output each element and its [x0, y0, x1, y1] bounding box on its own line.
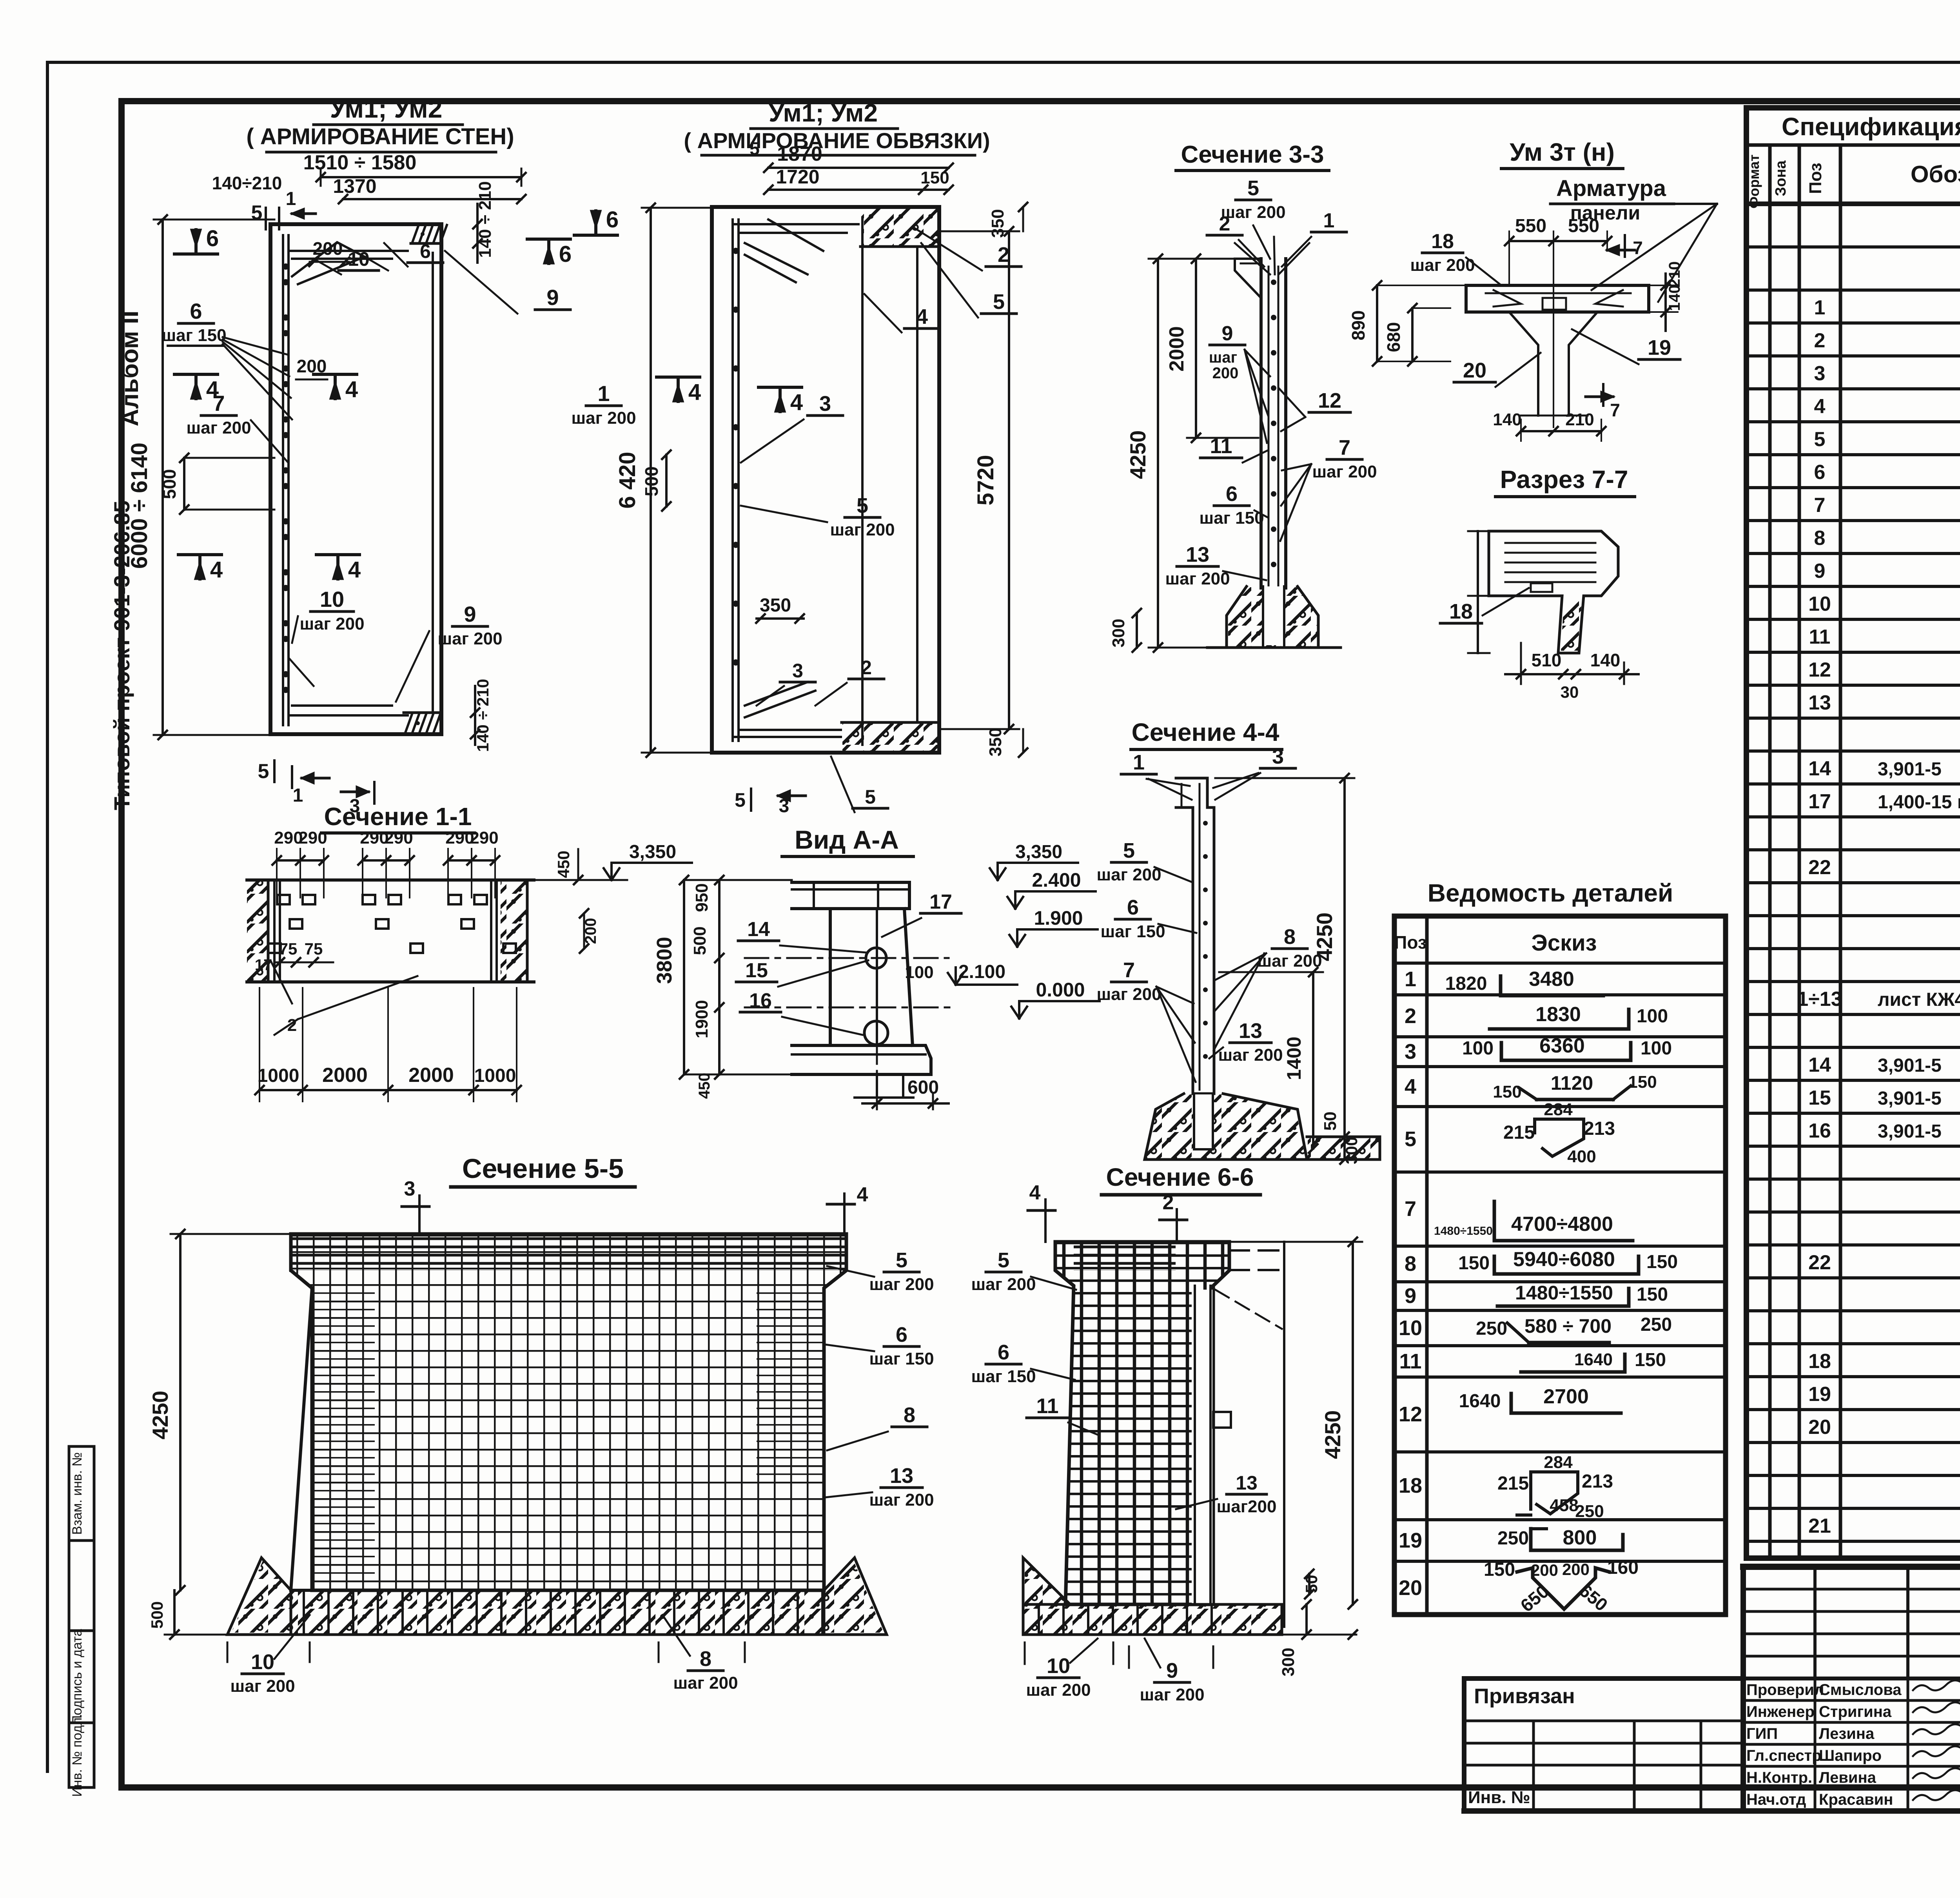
svg-text:5: 5 [998, 1248, 1009, 1272]
svg-text:5: 5 [735, 789, 746, 811]
svg-text:шаг 200: шаг 200 [1165, 569, 1230, 588]
svg-text:3: 3 [1814, 362, 1826, 385]
svg-text:Подпись и дата: Подпись и дата [70, 1629, 85, 1725]
svg-text:6: 6 [190, 299, 202, 323]
svg-text:3: 3 [792, 660, 803, 682]
svg-text:Зона: Зона [1773, 160, 1789, 196]
svg-text:250: 250 [1641, 1314, 1672, 1335]
svg-text:2: 2 [1814, 329, 1826, 352]
svg-text:1÷13: 1÷13 [1797, 988, 1842, 1011]
svg-text:шаг 200: шаг 200 [1140, 1685, 1204, 1704]
svg-text:1.900: 1.900 [1034, 907, 1083, 929]
svg-text:6000 ÷ 6140: 6000 ÷ 6140 [127, 443, 152, 569]
svg-text:8: 8 [700, 1647, 711, 1671]
svg-text:1400: 1400 [1283, 1036, 1305, 1080]
svg-text:Сечение 4-4: Сечение 4-4 [1132, 718, 1279, 746]
svg-text:150: 150 [920, 168, 949, 187]
svg-text:3,901-5: 3,901-5 [1878, 759, 1942, 780]
svg-text:Спецификация монолитных учас: Спецификация монолитных участков Ум1 ÷ У… [1782, 113, 1960, 141]
svg-text:1720: 1720 [776, 166, 819, 188]
svg-text:21: 21 [1808, 1515, 1831, 1537]
svg-text:3,350: 3,350 [629, 842, 676, 862]
svg-text:шаг 200: шаг 200 [869, 1490, 934, 1510]
svg-text:1870: 1870 [777, 143, 822, 165]
svg-text:2000: 2000 [408, 1064, 454, 1087]
svg-text:890: 890 [1348, 310, 1368, 341]
svg-text:5: 5 [1405, 1127, 1416, 1151]
svg-text:шаг 200: шаг 200 [971, 1275, 1036, 1294]
svg-text:Взам. инв. №: Взам. инв. № [70, 1452, 85, 1535]
svg-text:1: 1 [1133, 751, 1145, 774]
svg-text:Инв. № подл.: Инв. № подл. [70, 1714, 85, 1797]
svg-text:1830: 1830 [1535, 1003, 1581, 1026]
svg-text:6: 6 [420, 240, 431, 262]
svg-text:250: 250 [1575, 1502, 1604, 1521]
svg-text:( АРМИРОВАНИЕ СТЕН): ( АРМИРОВАНИЕ СТЕН) [246, 124, 514, 149]
svg-text:шаг 200: шаг 200 [1221, 203, 1285, 222]
svg-text:5: 5 [750, 138, 760, 159]
svg-text:5: 5 [1247, 176, 1259, 200]
svg-text:50: 50 [1321, 1112, 1340, 1131]
svg-text:284: 284 [1544, 1100, 1573, 1119]
svg-text:11: 11 [1399, 1350, 1421, 1373]
svg-text:17: 17 [929, 891, 952, 913]
svg-text:150: 150 [1635, 1350, 1666, 1370]
svg-text:1: 1 [293, 785, 303, 806]
svg-text:5: 5 [1814, 428, 1826, 451]
svg-text:2.400: 2.400 [1032, 869, 1081, 891]
svg-text:400: 400 [1567, 1147, 1596, 1166]
svg-text:1000: 1000 [258, 1065, 299, 1086]
svg-text:30: 30 [1561, 683, 1579, 701]
svg-text:1640: 1640 [1459, 1391, 1501, 1412]
svg-text:3,901-5: 3,901-5 [1878, 1121, 1942, 1142]
svg-text:шаг: шаг [1209, 349, 1237, 366]
svg-text:13: 13 [1239, 1019, 1262, 1043]
svg-text:10: 10 [1047, 1654, 1070, 1678]
svg-text:20: 20 [1463, 359, 1486, 382]
svg-text:200: 200 [1562, 1560, 1590, 1579]
svg-text:6: 6 [1226, 482, 1238, 506]
svg-text:16: 16 [1808, 1120, 1831, 1142]
svg-text:Поз: Поз [1394, 932, 1426, 953]
svg-text:5: 5 [896, 1248, 907, 1272]
svg-text:350: 350 [760, 595, 791, 616]
svg-text:19: 19 [1399, 1529, 1422, 1552]
svg-text:Вид А-А: Вид А-А [795, 825, 899, 854]
svg-text:8: 8 [904, 1403, 915, 1427]
svg-text:213: 213 [1582, 1471, 1613, 1492]
svg-text:500: 500 [159, 469, 180, 499]
svg-text:550: 550 [1515, 216, 1546, 236]
svg-text:2000: 2000 [322, 1064, 368, 1087]
svg-text:300: 300 [1109, 619, 1128, 647]
svg-text:100: 100 [1462, 1038, 1494, 1059]
svg-text:1: 1 [286, 189, 296, 209]
svg-text:13: 13 [890, 1464, 913, 1488]
svg-text:22: 22 [1808, 856, 1831, 879]
svg-text:300: 300 [1279, 1648, 1298, 1676]
svg-text:290: 290 [384, 828, 413, 847]
svg-text:6: 6 [606, 207, 619, 232]
svg-text:4250: 4250 [148, 1391, 172, 1440]
svg-text:250: 250 [1497, 1528, 1529, 1549]
svg-text:6360: 6360 [1539, 1034, 1585, 1057]
svg-text:1: 1 [1405, 967, 1416, 991]
svg-text:шаг 200: шаг 200 [869, 1275, 934, 1294]
svg-text:Н.Контр.: Н.Контр. [1746, 1769, 1812, 1786]
svg-text:9: 9 [1222, 322, 1233, 345]
svg-text:7: 7 [1633, 238, 1643, 258]
svg-text:450: 450 [554, 851, 573, 878]
svg-text:Гл.спестр: Гл.спестр [1746, 1747, 1822, 1764]
svg-text:15: 15 [745, 959, 768, 982]
svg-text:шаг 150: шаг 150 [1100, 922, 1165, 941]
svg-text:17: 17 [255, 956, 272, 974]
svg-text:Сечение 6-6: Сечение 6-6 [1106, 1163, 1254, 1191]
svg-text:1820: 1820 [1445, 973, 1487, 994]
svg-text:10: 10 [1399, 1316, 1422, 1340]
svg-text:4700÷4800: 4700÷4800 [1511, 1213, 1613, 1236]
svg-text:6: 6 [559, 241, 572, 267]
svg-text:Лезина: Лезина [1819, 1725, 1875, 1742]
svg-text:350: 350 [986, 728, 1005, 756]
svg-text:5: 5 [857, 494, 868, 517]
svg-text:15: 15 [1808, 1087, 1831, 1109]
svg-text:Сечение 3-3: Сечение 3-3 [1181, 141, 1324, 168]
svg-text:5720: 5720 [973, 455, 998, 505]
svg-text:Сечение 1-1: Сечение 1-1 [324, 802, 472, 831]
svg-text:50: 50 [1302, 1575, 1321, 1593]
svg-text:шаг 200: шаг 200 [1410, 256, 1475, 275]
svg-text:1900: 1900 [692, 1000, 711, 1038]
svg-text:шаг 200: шаг 200 [1312, 462, 1377, 481]
svg-text:2: 2 [861, 657, 872, 679]
svg-text:140 ÷ 210: 140 ÷ 210 [474, 679, 492, 752]
svg-text:1000: 1000 [474, 1065, 516, 1086]
svg-text:13: 13 [1186, 543, 1209, 566]
svg-text:Нач.отд: Нач.отд [1746, 1791, 1806, 1808]
svg-text:458: 458 [1550, 1496, 1578, 1515]
svg-text:140÷210: 140÷210 [212, 173, 282, 193]
svg-text:100: 100 [905, 963, 933, 982]
svg-text:75: 75 [305, 940, 323, 958]
svg-text:Разрез 7-7: Разрез 7-7 [1500, 465, 1628, 494]
svg-text:Поз: Поз [1806, 163, 1825, 194]
svg-text:Арматура: Арматура [1556, 176, 1666, 201]
svg-text:150: 150 [1484, 1559, 1515, 1580]
svg-text:3,901-5: 3,901-5 [1878, 1088, 1942, 1109]
svg-text:2: 2 [1405, 1004, 1416, 1028]
svg-text:шаг200: шаг200 [1217, 1497, 1277, 1516]
svg-text:2700: 2700 [1543, 1385, 1589, 1408]
svg-text:500: 500 [148, 1601, 166, 1629]
svg-text:950: 950 [692, 883, 711, 912]
svg-text:200: 200 [313, 238, 343, 259]
svg-text:1480÷1550: 1480÷1550 [1515, 1282, 1613, 1304]
svg-text:290: 290 [298, 828, 327, 847]
svg-text:7: 7 [1123, 958, 1135, 982]
svg-text:13: 13 [1808, 691, 1831, 714]
svg-text:16: 16 [749, 989, 772, 1012]
svg-text:5: 5 [251, 201, 263, 224]
svg-text:210: 210 [1666, 261, 1683, 288]
svg-text:140 ÷ 210: 140 ÷ 210 [475, 181, 495, 258]
svg-text:5940÷6080: 5940÷6080 [1513, 1248, 1615, 1271]
svg-text:3: 3 [1272, 745, 1284, 768]
svg-text:шаг 150: шаг 150 [162, 326, 226, 345]
svg-text:2: 2 [287, 1016, 297, 1035]
svg-text:2: 2 [1163, 1191, 1174, 1214]
svg-text:Шапиро: Шапиро [1819, 1747, 1882, 1764]
svg-text:5: 5 [1123, 839, 1135, 862]
svg-text:680: 680 [1383, 322, 1404, 352]
svg-text:лист КЖ40: лист КЖ40 [1878, 989, 1960, 1010]
svg-text:17: 17 [1808, 790, 1831, 813]
svg-text:Инв. №: Инв. № [1468, 1788, 1530, 1807]
svg-text:4: 4 [210, 557, 223, 582]
svg-text:12: 12 [1318, 389, 1341, 412]
svg-text:9: 9 [1166, 1659, 1178, 1682]
svg-text:Ум1; Ум2: Ум1; Ум2 [769, 99, 878, 127]
svg-text:18: 18 [1808, 1350, 1831, 1373]
svg-text:18: 18 [1449, 600, 1473, 623]
svg-text:160: 160 [1607, 1557, 1639, 1578]
svg-text:1370: 1370 [333, 175, 376, 197]
svg-text:3: 3 [819, 392, 831, 416]
svg-text:2000: 2000 [1165, 326, 1188, 372]
svg-text:5: 5 [993, 290, 1005, 314]
svg-text:3: 3 [404, 1178, 416, 1200]
svg-text:150: 150 [1646, 1252, 1678, 1272]
svg-text:22: 22 [1808, 1251, 1831, 1274]
svg-text:10: 10 [348, 248, 370, 270]
svg-text:140: 140 [1666, 285, 1683, 311]
svg-text:4: 4 [206, 377, 219, 402]
svg-text:20: 20 [1808, 1416, 1831, 1439]
svg-text:4: 4 [857, 1183, 868, 1206]
svg-text:6 420: 6 420 [615, 452, 640, 508]
svg-text:200: 200 [1212, 365, 1239, 382]
svg-text:Формат: Формат [1746, 154, 1762, 209]
svg-text:284: 284 [1544, 1453, 1573, 1472]
svg-text:13: 13 [1236, 1472, 1258, 1494]
svg-text:шаг 200: шаг 200 [1026, 1680, 1091, 1700]
svg-text:7: 7 [1610, 400, 1620, 420]
svg-text:шаг 200: шаг 200 [230, 1677, 295, 1696]
svg-text:140: 140 [1590, 650, 1621, 670]
svg-text:10: 10 [1808, 593, 1831, 615]
svg-text:300: 300 [1342, 1137, 1361, 1164]
svg-text:Ум 3т (н): Ум 3т (н) [1510, 138, 1615, 166]
svg-text:250: 250 [1476, 1318, 1507, 1339]
svg-text:200: 200 [1531, 1561, 1558, 1579]
svg-text:Привязан: Привязан [1474, 1684, 1575, 1708]
svg-text:9: 9 [546, 285, 559, 310]
svg-text:14: 14 [1808, 1054, 1831, 1076]
svg-text:1510 ÷ 1580: 1510 ÷ 1580 [303, 151, 417, 174]
svg-text:100: 100 [1641, 1038, 1672, 1059]
svg-text:3: 3 [1405, 1040, 1416, 1063]
svg-text:шаг 200: шаг 200 [830, 520, 895, 539]
svg-text:шаг 200: шаг 200 [1218, 1045, 1283, 1065]
svg-text:5: 5 [865, 786, 876, 808]
svg-text:4: 4 [1029, 1181, 1041, 1204]
svg-text:Стригина: Стригина [1819, 1703, 1892, 1720]
svg-text:150: 150 [1637, 1284, 1668, 1305]
svg-text:шаг 200: шаг 200 [299, 614, 364, 633]
svg-text:3: 3 [779, 796, 789, 817]
svg-text:11: 11 [1036, 1394, 1058, 1418]
svg-text:7: 7 [1339, 436, 1350, 459]
svg-text:6: 6 [998, 1341, 1009, 1364]
svg-text:2: 2 [1219, 212, 1230, 235]
svg-text:10: 10 [320, 587, 344, 611]
svg-text:12: 12 [1808, 659, 1831, 681]
svg-text:11: 11 [1809, 626, 1831, 648]
svg-text:500: 500 [690, 926, 710, 955]
svg-text:600: 600 [907, 1077, 939, 1098]
svg-text:100: 100 [1637, 1006, 1668, 1027]
svg-text:1480÷1550: 1480÷1550 [1434, 1225, 1493, 1238]
svg-text:шаг 200: шаг 200 [571, 408, 636, 428]
svg-text:8: 8 [1814, 527, 1826, 550]
svg-text:8: 8 [1405, 1252, 1416, 1276]
svg-text:шаг 150: шаг 150 [971, 1367, 1036, 1386]
svg-text:510: 510 [1532, 650, 1562, 670]
svg-text:2: 2 [998, 243, 1009, 267]
svg-text:6: 6 [1814, 461, 1826, 484]
svg-text:140: 140 [1493, 410, 1521, 429]
svg-text:3800: 3800 [653, 937, 676, 984]
svg-text:4: 4 [345, 377, 358, 402]
svg-text:19: 19 [1808, 1383, 1831, 1406]
svg-text:3,350: 3,350 [1015, 842, 1062, 862]
svg-text:4: 4 [1814, 395, 1826, 418]
svg-text:Эскиз: Эскиз [1531, 930, 1597, 956]
svg-text:12: 12 [1399, 1403, 1422, 1426]
svg-text:Красавин: Красавин [1819, 1791, 1893, 1808]
svg-text:Проверил: Проверил [1746, 1681, 1824, 1698]
svg-text:0.000: 0.000 [1036, 979, 1085, 1001]
svg-text:ГИП: ГИП [1746, 1725, 1778, 1742]
svg-text:19: 19 [1648, 336, 1671, 359]
svg-text:4250: 4250 [1125, 430, 1150, 479]
svg-text:Инженер: Инженер [1746, 1703, 1815, 1720]
svg-text:8: 8 [1284, 925, 1296, 949]
svg-text:шаг 200: шаг 200 [673, 1673, 738, 1693]
svg-text:( АРМИРОВАНИЕ ОБВЯЗКИ): ( АРМИРОВАНИЕ ОБВЯЗКИ) [684, 128, 990, 153]
svg-text:14: 14 [747, 918, 770, 941]
svg-text:3480: 3480 [1529, 968, 1574, 991]
svg-text:4250: 4250 [1312, 913, 1337, 962]
svg-text:Левина: Левина [1819, 1769, 1877, 1786]
svg-text:Смыслова: Смыслова [1819, 1681, 1902, 1698]
svg-text:4: 4 [790, 390, 803, 415]
svg-text:4: 4 [688, 379, 701, 405]
svg-text:14: 14 [1808, 757, 1831, 780]
svg-text:Альбом II: Альбом II [116, 310, 143, 426]
svg-text:6: 6 [206, 226, 219, 251]
svg-text:9: 9 [1814, 560, 1826, 582]
svg-text:5: 5 [258, 760, 269, 783]
svg-text:1: 1 [1814, 296, 1826, 319]
svg-text:215: 215 [1503, 1122, 1535, 1143]
svg-text:215: 215 [1497, 1473, 1529, 1494]
svg-text:550: 550 [1568, 216, 1599, 236]
svg-text:2.100: 2.100 [958, 962, 1005, 982]
svg-text:11: 11 [1210, 434, 1232, 458]
svg-text:шаг 200: шаг 200 [437, 629, 502, 648]
svg-text:200: 200 [582, 918, 599, 944]
svg-text:4: 4 [916, 305, 928, 328]
svg-text:1: 1 [597, 381, 610, 406]
svg-text:18: 18 [1431, 230, 1454, 253]
svg-text:580 ÷ 700: 580 ÷ 700 [1524, 1315, 1612, 1337]
svg-text:350: 350 [988, 209, 1007, 238]
svg-text:6: 6 [1127, 896, 1139, 919]
svg-text:800: 800 [1563, 1526, 1597, 1549]
svg-text:4: 4 [348, 557, 361, 582]
svg-text:4: 4 [1405, 1075, 1416, 1098]
svg-text:150: 150 [1493, 1082, 1521, 1101]
svg-text:шаг 150: шаг 150 [869, 1349, 934, 1368]
svg-text:7: 7 [1814, 494, 1826, 517]
svg-text:Ведомость деталей: Ведомость деталей [1428, 879, 1673, 907]
svg-text:500: 500 [641, 466, 662, 497]
svg-text:Сечение 5-5: Сечение 5-5 [462, 1153, 624, 1184]
svg-text:7: 7 [1405, 1197, 1416, 1221]
svg-text:3,901-5: 3,901-5 [1878, 1055, 1942, 1076]
svg-text:150: 150 [1628, 1072, 1657, 1092]
svg-text:290: 290 [470, 828, 498, 847]
svg-text:213: 213 [1584, 1118, 1615, 1139]
svg-text:4250: 4250 [1320, 1410, 1345, 1459]
svg-text:1,400-15 вып.1: 1,400-15 вып.1 [1878, 792, 1960, 813]
svg-text:шаг 200: шаг 200 [1096, 985, 1161, 1004]
svg-text:шаг 200: шаг 200 [1096, 865, 1161, 884]
svg-text:10: 10 [251, 1650, 274, 1674]
svg-text:Ум1; Ум2: Ум1; Ум2 [330, 94, 443, 123]
svg-text:6: 6 [896, 1323, 907, 1346]
svg-text:75: 75 [279, 940, 298, 958]
svg-text:20: 20 [1399, 1576, 1422, 1600]
svg-text:150: 150 [1458, 1253, 1490, 1274]
svg-text:Обозначение: Обозначение [1911, 161, 1960, 187]
svg-text:1: 1 [1323, 209, 1335, 232]
svg-text:450: 450 [696, 1073, 713, 1099]
svg-text:1640: 1640 [1574, 1350, 1613, 1369]
svg-text:9: 9 [464, 602, 476, 626]
svg-text:шаг 200: шаг 200 [186, 418, 251, 437]
svg-text:210: 210 [1565, 410, 1594, 429]
svg-text:18: 18 [1399, 1474, 1422, 1497]
svg-text:1120: 1120 [1551, 1072, 1593, 1094]
svg-text:9: 9 [1405, 1284, 1416, 1308]
